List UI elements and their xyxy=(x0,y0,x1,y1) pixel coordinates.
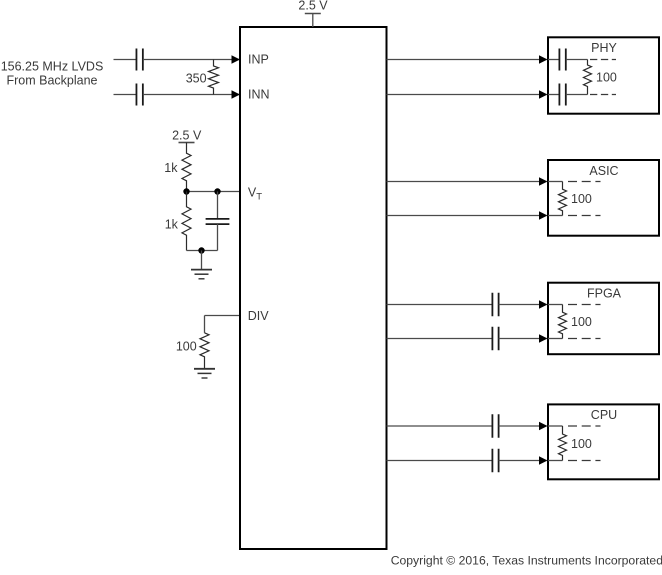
svg-text:100: 100 xyxy=(596,71,617,85)
junction dot VT right xyxy=(214,188,220,194)
capacitor C2 INN coupling xyxy=(136,84,142,106)
resistor R3 100 DIV xyxy=(200,333,209,369)
dashed stub CPU top xyxy=(568,425,601,427)
wire PHY top to resistor xyxy=(566,59,588,61)
arrowhead into ASIC bottom xyxy=(539,211,548,219)
wire OUT to CPU bottom seg2 xyxy=(499,460,547,462)
dashed stub CPU bottom xyxy=(568,460,601,462)
wire OUT to PHY top xyxy=(387,59,547,61)
svg-text:INN: INN xyxy=(248,88,270,102)
svg-text:2.5 V: 2.5 V xyxy=(298,0,328,12)
capacitor coupling FPGA top xyxy=(492,293,498,317)
ground VT network xyxy=(191,270,212,279)
wire OUT to CPU top seg2 xyxy=(499,425,547,427)
dashed stub PHY bottom xyxy=(590,94,616,96)
arrowhead into ASIC top xyxy=(539,177,548,185)
wire OUT to FPGA bottom seg1 xyxy=(387,338,493,340)
wire DIV to IC xyxy=(205,315,240,317)
dashed stub FPGA top xyxy=(568,304,601,306)
block ASIC xyxy=(548,160,659,236)
svg-text:DIV: DIV xyxy=(248,309,270,323)
wire OUT to ASIC top xyxy=(387,181,547,183)
wire FPGA bottom in xyxy=(548,338,563,340)
wire INN left segment xyxy=(114,94,137,96)
junction dot VT left xyxy=(183,188,189,194)
capacitor coupling FPGA bottom xyxy=(492,327,498,351)
wire PHY bottom to resistor xyxy=(566,94,588,96)
svg-text:From Backplane: From Backplane xyxy=(6,74,97,88)
power 2.5 V top bar xyxy=(305,13,321,15)
resistor 100 FPGA termination xyxy=(559,305,567,339)
wire ASIC bottom in xyxy=(548,215,563,217)
wire PHY top in xyxy=(548,59,559,61)
svg-text:1k: 1k xyxy=(165,217,179,231)
capacitor coupling CPU top xyxy=(492,414,498,438)
capacitor C1 INP coupling xyxy=(136,49,142,71)
svg-text:INP: INP xyxy=(248,53,269,67)
wire PHY bottom in xyxy=(548,94,559,96)
wire CPU top in xyxy=(548,425,563,427)
wire ground stem xyxy=(201,251,203,270)
arrowhead into CPU bottom xyxy=(539,456,548,464)
wire ASIC top in xyxy=(548,181,563,183)
capacitor internal PHY top xyxy=(559,49,565,71)
svg-text:1k: 1k xyxy=(164,161,178,175)
wire OUT to FPGA bottom seg2 xyxy=(499,338,547,340)
arrowhead into INP xyxy=(232,55,241,63)
arrowhead into FPGA top xyxy=(539,300,548,308)
capacitor coupling CPU bottom xyxy=(492,449,498,473)
wire bottom tie xyxy=(187,250,218,252)
wire OUT to PHY bottom xyxy=(387,94,547,96)
wire OUT to FPGA top seg2 xyxy=(499,304,547,306)
dashed stub FPGA bottom xyxy=(568,338,601,340)
arrowhead into INN xyxy=(232,90,241,98)
wire INN to IC xyxy=(143,94,239,96)
dashed stub ASIC bottom xyxy=(568,215,601,217)
svg-text:100: 100 xyxy=(571,437,592,451)
resistor 350 input termination xyxy=(209,60,219,95)
resistor R1 1k upper xyxy=(182,143,191,192)
dashed stub ASIC top xyxy=(568,181,601,183)
wire INP left segment xyxy=(114,59,137,61)
dashed stub PHY top xyxy=(590,59,616,61)
IC U1 main block xyxy=(240,27,387,549)
arrowhead into PHY bottom xyxy=(539,90,548,98)
wire OUT to CPU bottom seg1 xyxy=(387,460,493,462)
resistor 100 PHY termination xyxy=(584,60,592,95)
resistor 100 ASIC termination xyxy=(559,182,567,216)
svg-text:PHY: PHY xyxy=(591,41,617,55)
svg-text:ASIC: ASIC xyxy=(589,164,618,178)
arrowhead into FPGA bottom xyxy=(539,334,548,342)
capacitor internal PHY bottom xyxy=(559,84,565,106)
resistor R2 1k lower xyxy=(182,192,191,251)
wire FPGA top in xyxy=(548,304,563,306)
power 2.5 V bias bar xyxy=(179,142,195,144)
svg-text:100: 100 xyxy=(176,339,197,353)
svg-text:CPU: CPU xyxy=(591,408,617,422)
block FPGA xyxy=(548,283,659,355)
resistor 100 CPU termination xyxy=(559,426,567,461)
ground DIV xyxy=(194,369,215,378)
svg-text:350: 350 xyxy=(186,71,207,85)
wire DIV down xyxy=(204,316,206,333)
wire VT node to IC xyxy=(187,191,240,193)
svg-text:156.25 MHz LVDS: 156.25 MHz LVDS xyxy=(1,60,104,74)
arrowhead into PHY top xyxy=(539,55,548,63)
svg-text:100: 100 xyxy=(571,192,592,206)
block CPU xyxy=(548,404,659,479)
wire cap stem top xyxy=(217,192,219,219)
wire OUT to ASIC bottom xyxy=(387,215,547,217)
block PHY xyxy=(548,37,659,113)
wire OUT to FPGA top seg1 xyxy=(387,304,493,306)
junction dot ground node xyxy=(198,247,204,253)
svg-text:100: 100 xyxy=(571,315,592,329)
svg-text:FPGA: FPGA xyxy=(587,287,622,301)
svg-text:Copyright © 2016, Texas Instru: Copyright © 2016, Texas Instruments Inco… xyxy=(391,554,662,568)
wire CPU bottom in xyxy=(548,460,563,462)
wire OUT to CPU top seg1 xyxy=(387,425,493,427)
wire INP to IC xyxy=(143,59,239,61)
wire cap stem bottom xyxy=(217,224,219,250)
arrowhead into CPU top xyxy=(539,422,548,430)
wire power stem xyxy=(312,14,314,28)
capacitor C3 VT bypass xyxy=(206,219,230,224)
svg-text:2.5 V: 2.5 V xyxy=(172,129,202,143)
